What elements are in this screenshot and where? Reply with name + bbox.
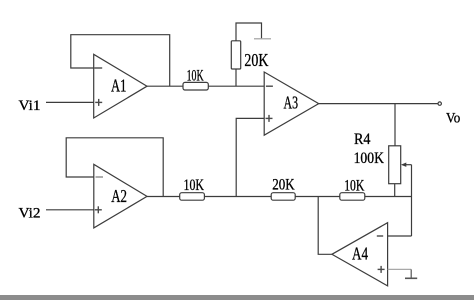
svg-text:100K: 100K	[354, 150, 385, 167]
svg-text:Vo: Vo	[446, 111, 460, 127]
wire A3 plus input from bottom rail	[236, 118, 264, 196]
svg-text:Vi2: Vi2	[19, 206, 41, 222]
wire Vo node down to R4 top	[394, 104, 396, 146]
ground (bottom, at A4 plus)	[405, 277, 417, 279]
resistor 10K (first, A1 output)	[183, 67, 208, 90]
bottom gray bar	[0, 295, 474, 300]
op-amp A3	[264, 72, 319, 135]
terminal Vo (open circle)	[438, 102, 441, 105]
wire A1 feedback loop	[71, 35, 170, 86]
wire A4 plus input to ground	[388, 269, 412, 277]
svg-text:R4: R4	[354, 131, 371, 148]
label Vo	[446, 111, 460, 127]
wire A1 output row to A3 minus input	[147, 85, 264, 87]
wire rail junction down to A4 output	[318, 197, 332, 255]
svg-text:20K: 20K	[272, 176, 295, 193]
svg-text:Vi1: Vi1	[19, 98, 41, 114]
wire A4 minus input to wiper vertical	[388, 235, 412, 237]
wiper arrow of R4	[401, 163, 412, 167]
resistor 10K (third, on rail)	[340, 177, 365, 200]
resistor 20K (vertical)	[231, 41, 268, 70]
svg-text:A3: A3	[284, 93, 299, 113]
ground (top, at 20K)	[254, 38, 271, 40]
svg-text:10K: 10K	[344, 177, 365, 194]
svg-text:10K: 10K	[187, 67, 205, 84]
svg-text:A2: A2	[111, 186, 127, 206]
wire A3 output to Vo terminal	[319, 103, 438, 105]
svg-text:10K: 10K	[184, 177, 205, 194]
op-amp A1	[94, 54, 147, 118]
svg-text:A1: A1	[111, 76, 126, 96]
label Vi1	[19, 98, 41, 114]
wire A2 feedback loop	[66, 138, 163, 197]
op-amp A2	[94, 164, 147, 228]
label Vi2	[19, 206, 41, 222]
svg-text:20K: 20K	[244, 50, 268, 70]
potentiometer R4 100K	[354, 131, 401, 184]
op-amp A4	[332, 223, 388, 286]
wire 20K branch to row	[235, 69, 237, 86]
resistor 10K (second, on rail after A2)	[180, 177, 205, 200]
svg-text:A4: A4	[352, 243, 368, 263]
wire wiper vertical down to A4 minus row	[411, 165, 413, 236]
wire Vi2 to A2 plus input	[46, 209, 94, 211]
wire 20K top to ground	[236, 23, 262, 41]
resistor 20K (second, on rail)	[271, 176, 295, 200]
wire Vi1 to A1 plus input	[46, 101, 94, 103]
wire R4 bottom to rail	[394, 184, 396, 197]
wire bottom rail	[147, 196, 412, 198]
